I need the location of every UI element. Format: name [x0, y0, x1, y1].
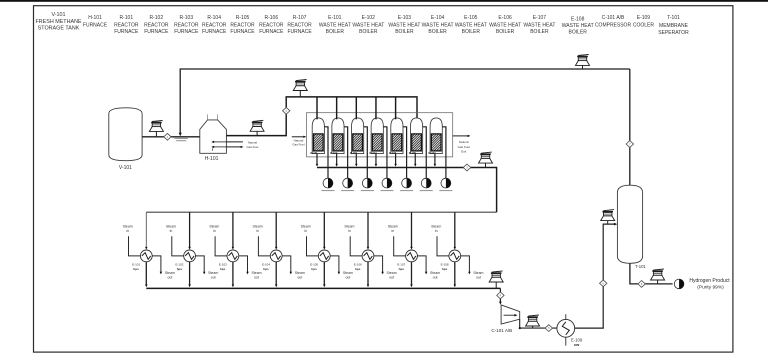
svg-text:FURNACE: FURNACE	[230, 29, 255, 35]
svg-text:WASTE HEAT: WASTE HEAT	[523, 22, 555, 28]
svg-text:Steam: Steam	[166, 224, 176, 228]
control valve on reactor feed manifold	[293, 80, 307, 97]
svg-text:(Purity 99%): (Purity 99%)	[697, 285, 724, 291]
stream flag 2	[283, 107, 290, 114]
pipe: R-101 bottom outlet to collection header	[316, 154, 319, 167]
pipe: steam in to E-104	[253, 224, 271, 256]
heat exchanger E-107 waste heat boiler	[397, 250, 417, 271]
pipe: R-104 bottom outlet to collection header	[375, 154, 378, 167]
svg-text:E-109: E-109	[637, 15, 651, 21]
pipe: R-105 side outlet down to flue terminator	[403, 127, 407, 178]
svg-text:in: in	[435, 229, 438, 233]
pipe: steam in to E-102	[166, 224, 184, 256]
reactor R-105	[389, 118, 403, 155]
svg-text:Steam: Steam	[165, 271, 175, 275]
pipe: natural gas fuel into reactor furnace	[292, 136, 306, 147]
heat exchanger E-104 waste heat boiler	[262, 250, 282, 271]
pipe: process drop through E-103	[232, 212, 235, 287]
terminator: saturated steam from R-106	[420, 178, 433, 191]
svg-text:Steam: Steam	[430, 271, 440, 275]
reactor R-102	[330, 118, 344, 155]
control valve on H-101 outlet	[250, 120, 264, 135]
reactor furnace enclosure R-101..R-107	[307, 113, 453, 157]
svg-text:E-101: E-101	[328, 15, 342, 21]
terminator: saturated steam from R-104	[380, 178, 393, 191]
svg-text:Gas Fuel: Gas Fuel	[458, 145, 471, 149]
pipe: R-103 side outlet down to flue terminator	[364, 127, 368, 178]
pipe: steam out of E-106	[374, 256, 397, 280]
pipe: steam out of E-101	[152, 256, 175, 280]
svg-text:E-106: E-106	[498, 15, 512, 21]
svg-text:cw: cw	[574, 342, 580, 347]
membrane separator T-101	[617, 185, 646, 269]
svg-text:Natural: Natural	[248, 140, 258, 144]
svg-text:BOILER: BOILER	[530, 29, 549, 35]
svg-text:FURNACE: FURNACE	[174, 29, 199, 35]
terminator: saturated steam from R-107	[439, 178, 452, 191]
pipe: boiler train top header	[146, 211, 496, 213]
stream flag 3	[463, 164, 470, 171]
svg-text:R-102: R-102	[149, 15, 163, 21]
pipe: feed drop into R-103	[355, 97, 357, 119]
svg-text:out: out	[476, 276, 481, 280]
pipe: boiler train bottom header	[146, 287, 500, 289]
svg-text:COMPRESSOR: COMPRESSOR	[595, 22, 632, 28]
pipe: feed drop into R-104	[375, 97, 377, 119]
pipe: process drop through E-104	[275, 212, 278, 287]
svg-text:out: out	[167, 276, 172, 280]
pipe: R-107 bottom outlet to collection header	[434, 154, 437, 167]
svg-text:BOILER: BOILER	[359, 29, 378, 35]
pipe: feed drop into R-102	[336, 97, 338, 119]
svg-text:hps: hps	[442, 267, 448, 271]
svg-text:out: out	[389, 276, 394, 280]
pipe: steam in to E-108	[431, 224, 449, 256]
pipe: E-109 outlet up to T-101 feed	[575, 223, 618, 328]
pipe: reactor outlet collection header	[317, 168, 497, 213]
svg-text:Gas Fuel: Gas Fuel	[247, 145, 259, 149]
svg-text:in: in	[348, 229, 351, 233]
stream flag 4	[497, 292, 504, 299]
control valve on collection header	[479, 152, 493, 167]
title bar top rule	[0, 0, 768, 2]
svg-text:hps: hps	[133, 267, 139, 271]
pipe: R-106 bottom outlet to collection header	[414, 154, 417, 167]
control valve on tank outlet	[149, 120, 163, 136]
svg-text:Steam: Steam	[123, 224, 133, 228]
pipe: R-103 bottom outlet to collection header	[355, 154, 358, 167]
svg-text:V-101: V-101	[51, 12, 65, 18]
pipe: R-105 bottom outlet to collection header	[394, 154, 397, 167]
svg-text:REACTOR: REACTOR	[287, 22, 312, 28]
heat exchanger E-103 waste heat boiler	[219, 250, 239, 271]
reactor R-104	[370, 118, 384, 155]
pipe: steam out of E-105	[330, 256, 353, 280]
pipe: steam in to E-105	[301, 224, 319, 256]
svg-text:E-102: E-102	[362, 15, 376, 21]
svg-text:E-108: E-108	[571, 16, 585, 22]
svg-text:BOILER: BOILER	[462, 29, 481, 35]
svg-text:Hydrogen Product: Hydrogen Product	[689, 278, 730, 284]
burner arrows inside H-101	[211, 141, 226, 151]
pipe: R-102 bottom outlet to collection header	[335, 154, 338, 167]
svg-text:WASTE HEAT: WASTE HEAT	[352, 22, 384, 28]
svg-text:hps: hps	[177, 267, 183, 271]
svg-text:in: in	[170, 229, 173, 233]
heat exchanger E-105 waste heat boiler	[310, 250, 330, 271]
svg-text:REACTOR: REACTOR	[114, 22, 139, 28]
pipe: feed drop into R-105	[395, 97, 397, 119]
pipe: steam out of E-104	[282, 256, 305, 280]
pipe: bottom header down to compressor	[499, 288, 502, 304]
stream flag 6	[600, 280, 607, 287]
pipe: compressor discharge to E-109	[519, 319, 557, 329]
pipe: steam in to E-103	[209, 224, 227, 256]
stream flag 7	[626, 141, 633, 148]
svg-text:H-101: H-101	[205, 156, 219, 162]
svg-text:BOILER: BOILER	[496, 29, 515, 35]
compressor C-101 A/B	[491, 305, 519, 333]
svg-text:Steam: Steam	[301, 224, 311, 228]
svg-text:R-103: R-103	[179, 15, 193, 21]
pipe: R-106 side outlet down to flue terminator	[423, 127, 427, 178]
svg-text:BOILER: BOILER	[428, 29, 447, 35]
svg-text:Steam: Steam	[253, 224, 263, 228]
reactor R-103	[350, 118, 364, 155]
pipe: recycle line down into T-101 top	[629, 69, 631, 186]
svg-text:hps: hps	[263, 267, 269, 271]
svg-text:hps: hps	[399, 267, 405, 271]
svg-text:Steam: Steam	[344, 224, 354, 228]
svg-text:R-105: R-105	[236, 15, 250, 21]
terminator: saturated steam from R-102	[341, 178, 354, 191]
control valve on compressor discharge	[526, 315, 540, 328]
svg-text:in: in	[256, 229, 259, 233]
svg-text:R-106: R-106	[264, 15, 278, 21]
svg-text:BOILER: BOILER	[326, 29, 345, 35]
svg-text:WASTE HEAT: WASTE HEAT	[422, 22, 454, 28]
svg-text:BOILER: BOILER	[395, 29, 414, 35]
pipe: process drop through E-102	[188, 212, 191, 287]
svg-text:R-104: R-104	[207, 15, 221, 21]
tank V-101 fresh methane storage	[109, 108, 142, 171]
svg-text:WASTE HEAT: WASTE HEAT	[388, 22, 420, 28]
heat exchanger E-102 waste heat boiler	[175, 250, 195, 271]
svg-text:FURNACE: FURNACE	[144, 29, 169, 35]
svg-text:C-101 A/B: C-101 A/B	[602, 15, 625, 21]
svg-text:STORAGE TANK: STORAGE TANK	[38, 26, 80, 32]
pipe: R-101 side outlet down to flue terminator	[324, 127, 328, 178]
terminator: saturated steam from R-103	[361, 178, 374, 191]
svg-text:Gas Fuel: Gas Fuel	[292, 142, 305, 146]
svg-text:Natural: Natural	[459, 140, 469, 144]
pipe: V-101 outlet to H-101 feed	[142, 135, 205, 138]
control valve on compressor suction	[489, 271, 503, 288]
svg-text:E-105: E-105	[464, 15, 478, 21]
pipe: process drop through E-106	[367, 212, 370, 287]
pipe: R-107 side outlet down to flue terminator	[442, 127, 446, 178]
svg-text:out: out	[345, 276, 350, 280]
svg-text:Steam: Steam	[209, 224, 219, 228]
pipe: T-101 bottom to hydrogen product	[630, 263, 673, 284]
svg-text:MEMBRANE: MEMBRANE	[659, 23, 689, 29]
svg-text:out: out	[211, 276, 216, 280]
svg-text:FURNACE: FURNACE	[259, 29, 284, 35]
pipe: steam out of E-103	[239, 256, 262, 280]
svg-text:FURNACE: FURNACE	[83, 22, 108, 28]
pipe: R-104 side outlet down to flue terminator	[383, 127, 387, 178]
svg-text:R-101: R-101	[119, 15, 133, 21]
control valve on recycle line	[576, 54, 590, 69]
pipe: recycle from T-101 top across drawing to feed junction	[179, 69, 630, 136]
svg-text:Steam: Steam	[208, 271, 218, 275]
svg-text:R-107: R-107	[293, 15, 307, 21]
svg-text:Steam: Steam	[387, 271, 397, 275]
terminator: hydrogen product	[674, 278, 730, 290]
heat exchanger E-108 waste heat boiler	[441, 250, 461, 271]
svg-text:hps: hps	[311, 267, 317, 271]
svg-text:hps: hps	[220, 267, 226, 271]
svg-text:in: in	[392, 229, 395, 233]
svg-text:SEPERATOR: SEPERATOR	[658, 30, 689, 36]
furnace H-101	[200, 114, 227, 162]
heat exchanger E-106 waste heat boiler	[354, 250, 374, 271]
pipe: feed drop into R-101	[316, 97, 318, 119]
svg-text:C-101 A/B: C-101 A/B	[491, 328, 512, 333]
svg-text:E-107: E-107	[533, 15, 547, 21]
stream flag 8	[638, 281, 645, 288]
svg-text:T-101: T-101	[635, 264, 646, 269]
pipe: process drop through E-108	[454, 212, 457, 287]
pipe: steam in to E-101	[123, 224, 141, 256]
pipe: natural gas fuel exit from reactor furnace	[453, 135, 471, 154]
svg-text:WASTE HEAT: WASTE HEAT	[455, 22, 487, 28]
reactor R-106	[409, 118, 423, 155]
svg-text:FURNACE: FURNACE	[202, 29, 227, 35]
svg-text:in: in	[126, 229, 129, 233]
svg-text:FURNACE: FURNACE	[288, 29, 313, 35]
svg-text:WASTE HEAT: WASTE HEAT	[562, 23, 594, 29]
pipe: process drop through E-107	[410, 212, 413, 287]
svg-text:FURNACE: FURNACE	[114, 29, 139, 35]
svg-text:Steam: Steam	[251, 271, 261, 275]
terminator: saturated steam from R-105	[400, 178, 413, 191]
svg-text:out: out	[254, 276, 259, 280]
svg-text:Exit: Exit	[461, 150, 466, 154]
svg-text:E-103: E-103	[398, 15, 412, 21]
svg-text:in: in	[304, 229, 307, 233]
svg-text:REACTOR: REACTOR	[144, 22, 169, 28]
svg-text:in: in	[213, 229, 216, 233]
svg-text:Steam: Steam	[343, 271, 353, 275]
svg-text:REACTOR: REACTOR	[259, 22, 284, 28]
svg-text:out: out	[297, 276, 302, 280]
heat exchanger E-101 waste heat boiler	[132, 250, 152, 271]
pipe: process drop through E-101	[145, 212, 148, 287]
control valve on product line	[651, 269, 665, 284]
pipe: natural gas fuel into H-101	[226, 140, 258, 149]
control valve on T-101 feed	[601, 210, 615, 225]
svg-text:COOLER: COOLER	[633, 22, 655, 28]
pipe: steam in to E-107	[388, 224, 406, 256]
reactor R-107	[428, 118, 442, 155]
pipe: H-101 outlet up to reactor feed manifold	[226, 97, 417, 136]
svg-text:REACTOR: REACTOR	[174, 22, 199, 28]
svg-text:REACTOR: REACTOR	[202, 22, 227, 28]
svg-text:WASTE HEAT: WASTE HEAT	[489, 22, 521, 28]
reactor R-101	[311, 118, 325, 155]
pipe: steam out of E-107	[417, 256, 440, 280]
pipe: steam out of E-108	[461, 256, 484, 280]
svg-text:V-101: V-101	[119, 165, 132, 171]
svg-text:Steam: Steam	[473, 271, 483, 275]
node: recycle mix point text	[175, 138, 188, 141]
svg-text:H-101: H-101	[88, 15, 102, 21]
svg-text:E-104: E-104	[431, 15, 445, 21]
svg-text:out: out	[433, 276, 438, 280]
svg-text:T-101: T-101	[667, 15, 680, 21]
terminator: saturated steam from R-101	[322, 178, 335, 191]
cooler E-109	[557, 314, 583, 347]
pipe: steam out of E-102	[196, 256, 219, 280]
svg-text:REACTOR: REACTOR	[230, 22, 255, 28]
svg-text:Steam: Steam	[295, 271, 305, 275]
pipe: R-102 side outlet down to flue terminator	[344, 127, 348, 178]
svg-text:BOILER: BOILER	[569, 30, 588, 36]
stream flag 1	[164, 133, 171, 140]
svg-text:WASTE HEAT: WASTE HEAT	[319, 22, 351, 28]
equipment list header row	[35, 12, 689, 36]
svg-text:Steam: Steam	[388, 224, 398, 228]
pipe: steam in to E-106	[344, 224, 362, 256]
pipe: process drop through E-105	[323, 212, 326, 287]
stream flag 5	[545, 325, 552, 332]
svg-text:FRESH METHANE: FRESH METHANE	[35, 19, 82, 25]
svg-text:hps: hps	[355, 267, 361, 271]
svg-text:Steam: Steam	[431, 224, 441, 228]
